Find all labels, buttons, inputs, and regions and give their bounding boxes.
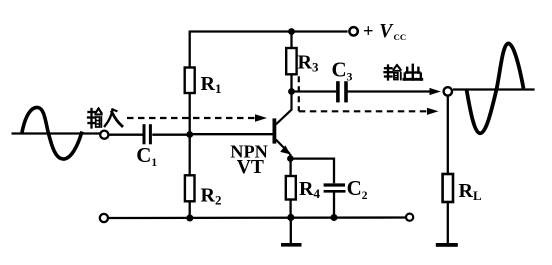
svg-text:CC: CC [394, 32, 407, 42]
svg-text:RL: RL [459, 180, 482, 203]
svg-text:C2: C2 [347, 176, 368, 202]
svg-text:V: V [379, 21, 394, 42]
svg-text:R3: R3 [298, 52, 319, 75]
svg-text:R2: R2 [201, 185, 222, 208]
svg-text:R4: R4 [299, 178, 320, 201]
svg-text:+: + [363, 22, 374, 42]
svg-text:R1: R1 [201, 73, 222, 96]
svg-text:VT: VT [237, 157, 264, 178]
svg-text:C1: C1 [136, 143, 157, 169]
svg-text:C3: C3 [332, 57, 353, 83]
